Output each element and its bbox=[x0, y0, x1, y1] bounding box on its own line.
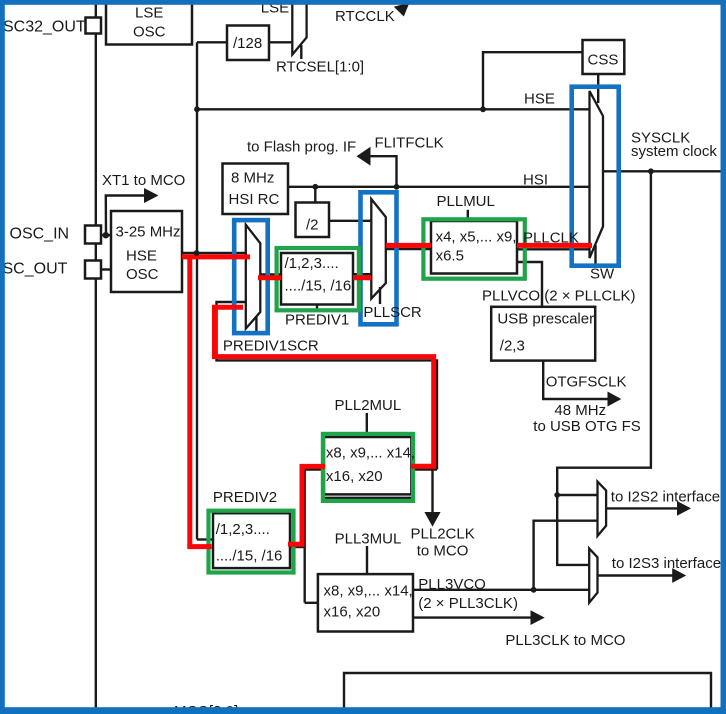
wire SYSCLK output bbox=[603, 170, 726, 172]
wire PLLSCR mux output to PLLMUL bbox=[386, 248, 431, 250]
wire HSE OSC output bbox=[182, 252, 246, 254]
svg-text:PLL3CLK to MCO: PLL3CLK to MCO bbox=[505, 632, 625, 649]
LSE OSC box bbox=[106, 3, 192, 45]
PREDIV2 box bbox=[213, 513, 290, 568]
wire USB prescaler output OTGFSCLK bbox=[543, 361, 609, 399]
pin OSC32_OUT bbox=[86, 18, 102, 34]
svg-text:OSC_IN: OSC_IN bbox=[10, 226, 70, 243]
svg-text:RTCCLK: RTCCLK bbox=[335, 8, 395, 25]
CSS box bbox=[583, 40, 625, 74]
svg-text:to I2S3 interface: to I2S3 interface bbox=[612, 555, 721, 572]
junction HSE OSC output bbox=[194, 250, 200, 256]
red wire PREDIV1 to PLLSCR bbox=[353, 275, 371, 280]
svg-text:PREDIV1: PREDIV1 bbox=[285, 312, 349, 329]
svg-text:/2: /2 bbox=[306, 217, 319, 234]
wire CSS to SW mux top bbox=[597, 74, 599, 103]
svg-text:/2,3: /2,3 bbox=[500, 338, 525, 355]
wire PREDIV1 to PLLSCR mux bbox=[353, 273, 371, 275]
wire HSE line to SW mux bbox=[197, 108, 590, 110]
divider /2 box bbox=[296, 203, 330, 238]
wire SYSCLK branch down to I2S muxes bbox=[557, 171, 651, 565]
wire PLL2CLK feedback to PREDIV1SCR mux bbox=[217, 302, 438, 470]
svg-text:3-25 MHz: 3-25 MHz bbox=[116, 224, 181, 241]
wire FLITFCLK tap bbox=[369, 156, 397, 187]
wire XT1 to MCO bbox=[106, 196, 145, 236]
wire PREDIV1SCR mux output to PREDIV1 bbox=[260, 273, 281, 275]
svg-text:CSS: CSS bbox=[588, 52, 619, 69]
svg-text:x8, x9,... x14,: x8, x9,... x14, bbox=[326, 445, 415, 462]
wire PLL3VCO branch to I2S2 mux bbox=[534, 521, 598, 590]
wire to /128 input bbox=[197, 41, 227, 43]
svg-text:system clock: system clock bbox=[631, 143, 717, 160]
arrow PLL3CLK to MCO bbox=[531, 610, 545, 625]
SW mux bbox=[590, 91, 604, 265]
green highlight PREDIV1 bbox=[277, 248, 359, 310]
svg-text:x6.5: x6.5 bbox=[436, 248, 464, 265]
red wire HSE to PREDIV1SCR bbox=[182, 254, 250, 259]
svg-text:/128: /128 bbox=[233, 35, 262, 52]
wire PLL3MUL label tick bbox=[366, 546, 368, 574]
svg-text:/1,2,3....: /1,2,3.... bbox=[285, 255, 339, 272]
junction SYSCLK to I2S2 bbox=[554, 492, 560, 498]
PLL2MUL inner bottom line bbox=[324, 497, 411, 499]
svg-text:LSE: LSE bbox=[135, 5, 163, 22]
svg-text:8 MHz: 8 MHz bbox=[231, 170, 274, 187]
svg-text:x16, x20: x16, x20 bbox=[326, 468, 383, 485]
svg-text:HSE: HSE bbox=[126, 248, 157, 265]
svg-text:x4, x5,... x9,: x4, x5,... x9, bbox=[436, 229, 517, 246]
red wire PLLCLK to SW bbox=[517, 243, 592, 248]
PLLMUL box bbox=[431, 221, 517, 274]
svg-text:to USB OTG FS: to USB OTG FS bbox=[533, 418, 641, 435]
PLLSCR mux bbox=[371, 199, 386, 304]
svg-text:FLITFCLK: FLITFCLK bbox=[375, 135, 444, 152]
svg-text:..../15, /16: ..../15, /16 bbox=[285, 278, 352, 295]
svg-text:..../15, /16: ..../15, /16 bbox=[216, 548, 283, 565]
svg-text:x8, x9,... x14,: x8, x9,... x14, bbox=[324, 583, 413, 600]
wire OSC_IN pin to HSE OSC bbox=[101, 234, 111, 236]
pin OSC_IN bbox=[85, 226, 101, 244]
green highlight PREDIV2 bbox=[209, 511, 294, 573]
svg-text:HSI RC: HSI RC bbox=[229, 191, 280, 208]
wire PLL2CLK to MCO branch bbox=[431, 470, 433, 515]
svg-text:XT1 to MCO: XT1 to MCO bbox=[102, 172, 185, 189]
svg-text:HSE: HSE bbox=[524, 91, 555, 108]
wire to PLL3MUL input bbox=[305, 602, 318, 604]
wire to PLL2MUL input bbox=[305, 468, 324, 470]
I2S2 mux bbox=[598, 482, 607, 536]
RTCSEL mux bbox=[292, 1, 306, 59]
blue highlight SW bbox=[572, 87, 619, 266]
svg-text:to Flash prog. IF: to Flash prog. IF bbox=[247, 139, 356, 156]
wire SYSCLK to I2S2 mux bbox=[557, 494, 597, 496]
svg-text:USB prescaler: USB prescaler bbox=[497, 311, 594, 328]
wire PLLMUL label tick bbox=[467, 210, 469, 219]
wire I2S3 mux output bbox=[598, 574, 675, 576]
wire PREDIV1 label tick bbox=[316, 306, 318, 313]
PREDIV1 box bbox=[281, 253, 353, 305]
wire PLL3CLK to MCO bbox=[413, 616, 532, 618]
svg-text:OSC: OSC bbox=[126, 266, 159, 283]
wire OSC_OUT pin to HSE OSC bbox=[101, 268, 111, 270]
wire HSE to PREDIV2 input bbox=[197, 538, 213, 540]
PLL3MUL box bbox=[318, 574, 413, 631]
wire PLL2MUL output bbox=[411, 468, 437, 470]
blue highlight PLLSCR bbox=[361, 192, 397, 324]
red wire PREDIV1SCR output bbox=[258, 275, 281, 280]
red wire PLLSCR to PLLMUL bbox=[386, 243, 431, 248]
svg-text:OTGFSCLK: OTGFSCLK bbox=[546, 374, 627, 391]
svg-text:SC_OUT: SC_OUT bbox=[3, 261, 68, 278]
junction CSS tap bbox=[480, 106, 486, 112]
wire chip boundary vertical bbox=[95, 0, 97, 714]
junction PLL3VCO branch bbox=[531, 587, 537, 593]
green highlight PLL2MUL bbox=[323, 434, 413, 501]
arrow XT1 to MCO bbox=[144, 188, 159, 203]
arrow PLL2CLK to MCO bbox=[424, 512, 440, 527]
svg-text:48 MHz: 48 MHz bbox=[554, 402, 606, 419]
bottom MCO block (cut off) bbox=[344, 673, 711, 714]
PLL2MUL box bbox=[324, 437, 411, 494]
PREDIV1SCR mux bbox=[246, 225, 260, 334]
svg-text:/1,2,3....: /1,2,3.... bbox=[216, 521, 270, 538]
svg-text:(2 × PLL3CLK): (2 × PLL3CLK) bbox=[418, 595, 518, 612]
svg-text:to I2S2 interface: to I2S2 interface bbox=[611, 489, 720, 506]
USB prescaler box bbox=[491, 307, 595, 361]
svg-text:PLL3MUL: PLL3MUL bbox=[335, 531, 402, 548]
pin OSC_OUT bbox=[85, 261, 101, 279]
svg-text:PREDIV1SCR: PREDIV1SCR bbox=[223, 338, 319, 355]
wire PREDIV2 output bbox=[290, 546, 305, 548]
svg-text:HSI: HSI bbox=[523, 172, 548, 189]
wire I2S2 mux output bbox=[606, 507, 679, 509]
svg-text:x16, x20: x16, x20 bbox=[324, 604, 381, 621]
svg-text:PLL3VCO: PLL3VCO bbox=[418, 576, 486, 593]
arrow to I2S2 interface bbox=[677, 501, 691, 516]
wire HSI line to SW mux bbox=[288, 186, 590, 188]
8 MHz HSI RC box bbox=[223, 164, 289, 215]
red wire HSE down to PREDIV2 bbox=[190, 255, 212, 547]
wire HSE riser x197 bbox=[196, 42, 198, 539]
svg-text:PLLSCR: PLLSCR bbox=[363, 304, 422, 321]
wire PLLVCO to USB prescaler bbox=[517, 262, 542, 307]
wire CSS tap bbox=[483, 52, 583, 109]
red wire PREDIV2 to PLL2MUL bbox=[288, 466, 325, 544]
svg-text:OSC: OSC bbox=[133, 24, 166, 41]
junction FLITFCLK tap bbox=[394, 184, 400, 190]
arrow RTCCLK bbox=[394, 3, 410, 17]
svg-text:PLLCLK: PLLCLK bbox=[523, 230, 579, 247]
divider /128 box bbox=[227, 26, 269, 61]
arrow FLITFCLK (to Flash) bbox=[357, 147, 371, 166]
svg-text:PREDIV2: PREDIV2 bbox=[213, 489, 277, 506]
blue highlight PREDIV1SCR bbox=[234, 220, 268, 333]
HSE OSC box bbox=[111, 211, 182, 292]
svg-text:SW: SW bbox=[590, 266, 615, 283]
wire /2 to PLLSCR mux bbox=[329, 220, 371, 222]
wire PLL3VCO to I2S3 mux bbox=[413, 589, 589, 591]
svg-text:PLLMUL: PLLMUL bbox=[437, 193, 495, 210]
svg-text:PLL2CLK: PLL2CLK bbox=[411, 526, 475, 543]
svg-text:PLLVCO (2 × PLLCLK): PLLVCO (2 × PLLCLK) bbox=[482, 288, 636, 305]
svg-text:SC32_OUT: SC32_OUT bbox=[3, 19, 86, 36]
svg-text:PLL2MUL: PLL2MUL bbox=[335, 397, 402, 414]
wire PLLCLK to SW mux bbox=[517, 248, 590, 250]
wire PREDIV2 output riser bbox=[304, 470, 306, 603]
svg-text:RTCSEL[1:0]: RTCSEL[1:0] bbox=[276, 59, 364, 76]
wire /128 output to RTCSEL mux bbox=[269, 41, 292, 43]
svg-text:to MCO: to MCO bbox=[417, 543, 469, 560]
arrow to I2S3 interface bbox=[672, 568, 686, 583]
wire HSI to /2 box bbox=[314, 187, 316, 203]
junction OSC_IN / XT1 bbox=[103, 232, 109, 238]
arrow OTGFSCLK bbox=[608, 392, 622, 407]
junction HSI to /2 bbox=[312, 184, 318, 190]
red wire PLL2MUL feedback to PREDIV1SCR bbox=[215, 307, 434, 466]
I2S3 mux bbox=[589, 549, 597, 603]
wire PLL2MUL label tick bbox=[366, 413, 368, 432]
junction HSE riser / HSE line bbox=[194, 106, 200, 112]
junction SYSCLK branch bbox=[648, 168, 654, 174]
green highlight PLLMUL bbox=[423, 219, 524, 278]
